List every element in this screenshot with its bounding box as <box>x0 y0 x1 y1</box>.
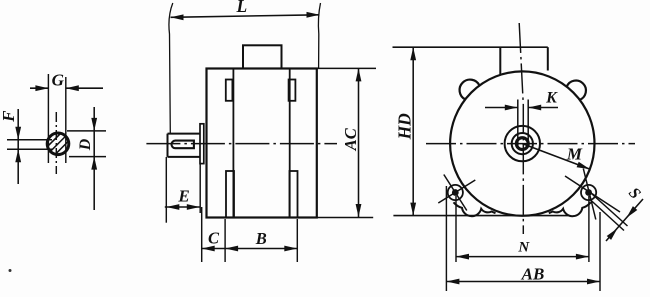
dimension C-B line <box>202 246 298 252</box>
foot side-view right <box>290 171 298 218</box>
label B <box>255 229 267 248</box>
extension line CB middle <box>224 219 226 262</box>
svg-text:S: S <box>625 184 644 202</box>
shaft hatching <box>48 134 68 154</box>
lug top-right <box>567 81 586 100</box>
svg-text:E: E <box>177 186 189 205</box>
mounting hole left <box>438 175 475 211</box>
label D <box>77 138 94 151</box>
shaft top line <box>168 133 201 135</box>
label L <box>236 0 248 16</box>
keyway line lower <box>7 148 52 150</box>
svg-text:M: M <box>566 144 583 163</box>
hub middle circle <box>512 133 533 154</box>
mounting plane line <box>393 215 569 217</box>
foot outline right <box>549 202 591 216</box>
label N <box>517 240 530 256</box>
extension line L left <box>169 3 173 133</box>
vertical centerline <box>519 23 523 234</box>
svg-text:F: F <box>0 110 18 123</box>
dimension E line <box>165 204 200 210</box>
dimension K line right <box>528 105 558 111</box>
label E <box>177 186 189 205</box>
lug top-left <box>460 80 480 100</box>
end-shield line right <box>289 69 291 218</box>
svg-text:N: N <box>517 240 530 256</box>
dimension G line left <box>30 85 48 91</box>
extension line N left <box>455 196 457 262</box>
shaft end line <box>167 134 169 157</box>
svg-text:B: B <box>255 229 267 248</box>
terminal box left edge <box>499 47 501 74</box>
dimension D line <box>91 107 97 210</box>
shaft circle end view <box>516 138 528 150</box>
extension line L right <box>318 3 320 68</box>
svg-text:AB: AB <box>521 264 545 283</box>
mounting hole right <box>565 169 620 220</box>
extension line B right <box>296 219 298 262</box>
shaft vertical centerline <box>55 112 57 174</box>
label AC <box>341 127 360 151</box>
label K <box>545 90 558 107</box>
shaft keyway slot <box>172 141 194 149</box>
horizontal centerline middle <box>146 143 337 145</box>
keyway tick left <box>517 100 519 147</box>
svg-text:AC: AC <box>341 127 360 151</box>
foot outline left <box>454 202 496 216</box>
label HD <box>395 113 415 141</box>
dimension AC line <box>356 68 362 217</box>
extension line AC bottom <box>317 217 373 219</box>
dimension HD line <box>410 47 416 215</box>
dimension K line left <box>485 105 518 111</box>
extension line D bottom <box>69 156 106 158</box>
dimension AB line <box>446 279 600 285</box>
svg-text:L: L <box>236 0 248 16</box>
label M <box>566 144 583 163</box>
shaft bottom line <box>168 156 201 158</box>
hub outer circle <box>505 126 540 161</box>
motor body outline <box>207 69 317 218</box>
extension line AC top <box>317 67 376 69</box>
dimension S line <box>606 199 643 241</box>
dimension G line right <box>66 85 103 91</box>
horizontal centerline right <box>426 143 635 145</box>
svg-text:C: C <box>208 229 220 248</box>
dimension F line <box>15 109 21 184</box>
foot side-view left <box>226 171 234 218</box>
extension line N right <box>588 196 590 262</box>
slot line upper <box>592 194 628 226</box>
svg-text:D: D <box>77 138 94 151</box>
dimension N line <box>456 254 589 260</box>
terminal box side view <box>243 45 282 68</box>
stray mark <box>9 269 12 272</box>
extension line AB left <box>445 186 447 291</box>
bolt boss top-right <box>289 80 296 101</box>
label AB <box>521 264 545 283</box>
extension line E left <box>165 157 167 223</box>
end view main circle <box>450 71 594 215</box>
dimension L line <box>171 12 320 20</box>
bearing boss <box>200 124 204 164</box>
slot line lower <box>590 199 625 231</box>
svg-text:HD: HD <box>395 113 415 141</box>
keyway line upper <box>7 139 52 141</box>
extension line G left <box>47 74 49 163</box>
svg-text:G: G <box>52 71 65 90</box>
label F <box>0 110 18 123</box>
extension line C left <box>201 207 203 262</box>
svg-text:K: K <box>545 90 558 107</box>
label C <box>208 229 220 248</box>
keyway tick right <box>527 100 529 147</box>
end-shield line left <box>232 69 234 218</box>
terminal box right edge <box>547 47 549 70</box>
extension line D top <box>67 130 106 132</box>
extension line E right <box>199 164 201 213</box>
label S <box>625 184 644 202</box>
dimension M line <box>522 144 590 170</box>
terminal box top / HD extension <box>393 46 548 48</box>
label G <box>52 71 65 90</box>
bolt boss top-left <box>226 80 233 101</box>
extension line AB right <box>599 212 601 291</box>
extension line G right <box>65 77 67 163</box>
shaft end-view circle <box>47 133 69 155</box>
